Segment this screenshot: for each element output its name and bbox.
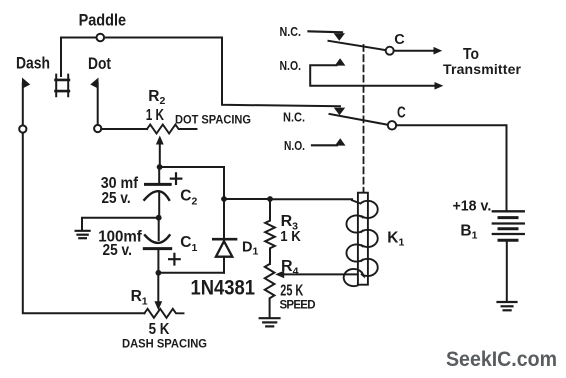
dash lever contact xyxy=(22,83,24,125)
plus C2 xyxy=(171,173,182,184)
svg-text:25 v.: 25 v. xyxy=(102,190,131,207)
switch 2 arm xyxy=(330,114,389,125)
switch 2 common C xyxy=(388,121,396,129)
switch 1 N.O. contact xyxy=(335,58,346,65)
svg-text:25 K: 25 K xyxy=(280,283,303,300)
relay core K1 xyxy=(358,193,368,285)
capacitor C1 xyxy=(158,218,160,240)
svg-text:5 K: 5 K xyxy=(149,321,170,338)
svg-text:1 K: 1 K xyxy=(280,228,301,245)
svg-text:SeekIC.com: SeekIC.com xyxy=(446,348,557,371)
wire dash terminal to R1 xyxy=(23,133,145,314)
svg-text:Paddle: Paddle xyxy=(79,12,127,30)
switch 2 N.O. stub xyxy=(312,144,337,146)
capacitor C2 xyxy=(158,167,160,183)
relay mechanical link (dashed) xyxy=(363,45,365,192)
wire J2 to J3 xyxy=(224,198,270,200)
switch 1 N.C. lead xyxy=(309,31,343,32)
relay coil K1 winding xyxy=(344,200,378,286)
wire J5 to diode D1 anode xyxy=(158,258,224,273)
node J3 xyxy=(267,196,273,202)
wire paddle common to relay NC contact xyxy=(61,38,340,107)
node J2 xyxy=(221,196,227,202)
battery B1 xyxy=(493,211,524,240)
paddle key symbol xyxy=(56,75,69,97)
resistor R1 xyxy=(144,309,183,318)
svg-text:N.C.: N.C. xyxy=(280,25,302,39)
plus C1 xyxy=(169,254,180,265)
ground G1 xyxy=(76,231,90,238)
switch 1 common C xyxy=(386,47,394,55)
resistor R3 xyxy=(265,199,275,264)
svg-text:N.C.: N.C. xyxy=(283,111,305,125)
wire J1 to diode D1 cathode xyxy=(160,167,224,239)
svg-text:SPEED: SPEED xyxy=(280,300,316,312)
resistor R2 xyxy=(147,125,197,134)
svg-text:DASH SPACING: DASH SPACING xyxy=(122,338,207,350)
svg-text:+18 v.: +18 v. xyxy=(453,197,492,214)
switch 1 arm xyxy=(329,41,387,50)
svg-text:N.O.: N.O. xyxy=(284,139,305,153)
node J4 xyxy=(156,215,162,221)
node dot terminal xyxy=(94,125,101,132)
wire switch 1 C to transmitter xyxy=(394,50,435,52)
svg-text:1 K: 1 K xyxy=(146,107,165,124)
svg-text:1N4381: 1N4381 xyxy=(191,276,256,300)
wiper arrow R1 xyxy=(157,273,159,302)
svg-text:25 v.: 25 v. xyxy=(103,242,132,259)
node dash terminal xyxy=(19,125,26,132)
switch 1 N.C. contact xyxy=(334,33,345,41)
wiper arrow R4 xyxy=(284,273,361,275)
wire dot terminal to R2 xyxy=(101,128,147,130)
wiper arrow R2 xyxy=(159,143,161,167)
diode D1 xyxy=(213,238,236,241)
svg-text:Dot: Dot xyxy=(88,54,111,73)
svg-text:DOT SPACING: DOT SPACING xyxy=(175,114,251,126)
resistor R4 xyxy=(265,264,275,317)
wire switch 2 C to battery xyxy=(396,125,506,210)
dot lever contact xyxy=(97,83,99,125)
wire switch 1 N.O. to transmitter xyxy=(310,65,436,85)
svg-text:C: C xyxy=(397,105,406,122)
wire J3 to relay coil top xyxy=(270,198,352,200)
svg-text:N.O.: N.O. xyxy=(280,59,302,73)
switch 2 N.C. contact xyxy=(334,108,345,116)
node paddle terminal xyxy=(97,34,105,42)
wire J4 to ground xyxy=(82,218,159,230)
wire battery to ground xyxy=(506,242,508,302)
node J5 xyxy=(156,270,162,276)
ground G2 xyxy=(260,318,280,326)
svg-text:C: C xyxy=(394,32,405,48)
svg-text:Dash: Dash xyxy=(16,53,50,72)
node J1 xyxy=(157,164,163,170)
svg-text:Transmitter: Transmitter xyxy=(443,61,522,77)
ground G3 xyxy=(498,302,517,310)
